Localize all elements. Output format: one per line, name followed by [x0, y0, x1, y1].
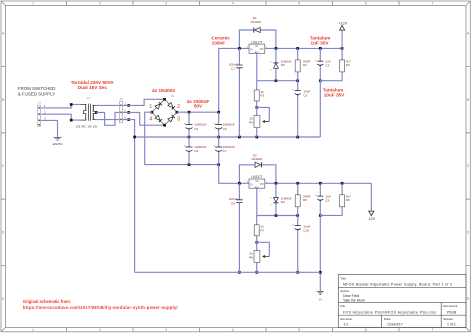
svg-text:1: 1: [32, 2, 34, 6]
capacitor C3 10uF tantalum: [292, 81, 310, 137]
svg-text:T1: T1: [87, 96, 91, 100]
svg-text:5: 5: [298, 328, 300, 332]
svg-text:7: 7: [431, 2, 433, 6]
svg-text:+: +: [184, 144, 186, 148]
wire 0V rail: [135, 136, 321, 138]
svg-text:15V 15V: 15V 15V: [87, 124, 97, 128]
capacitor C9 1uF tantalum: [315, 183, 331, 272]
svg-text:+: +: [315, 193, 317, 197]
wire T1 secondary bottom to J2 pin3: [96, 119, 120, 121]
svg-text:MFOS Bipolar Adjustable Power: MFOS Bipolar Adjustable Power Supply, Bo…: [343, 283, 452, 287]
svg-text:4: 4: [232, 2, 234, 6]
svg-text:& FUSED SUPPLY: & FUSED SUPPLY: [18, 92, 55, 97]
svg-text:R2: R2: [260, 94, 264, 98]
svg-text:R8: R8: [249, 255, 253, 259]
capacitor C2 1uF tantalum: [315, 48, 331, 137]
wire J1 pin3 to earth: [41, 120, 58, 137]
svg-text:LM317T: LM317T: [251, 40, 263, 44]
svg-text:C8: C8: [231, 201, 235, 205]
svg-text:Date: Date: [384, 317, 391, 321]
wire J2 pin1 to bridge AC top: [123, 99, 165, 105]
svg-text:D: D: [2, 231, 5, 235]
svg-text:C9: C9: [325, 198, 329, 202]
svg-text:C: C: [467, 164, 470, 168]
svg-text:R7: R7: [260, 228, 264, 232]
svg-text:R4: R4: [249, 120, 253, 124]
capacitor C5 10000uF: [214, 112, 235, 137]
potentiometer R4 2k: [249, 107, 269, 137]
svg-text:C7: C7: [223, 149, 227, 153]
svg-text:100nF: 100nF: [212, 40, 226, 45]
node -12V power: [367, 183, 375, 221]
svg-text:1: 1: [32, 328, 34, 332]
svg-text:6: 6: [365, 2, 367, 6]
svg-text:VO: VO: [260, 182, 264, 186]
svg-text:Revision: Revision: [340, 317, 352, 321]
svg-text:R1: R1: [303, 63, 307, 67]
resistor R5 240R: [295, 183, 311, 215]
potentiometer R8 2k: [249, 242, 269, 272]
svg-text:LM337T: LM337T: [251, 175, 263, 179]
note: Tantalum 10uF 35V: [323, 87, 345, 97]
svg-text:1N4002: 1N4002: [251, 157, 262, 161]
node +12V power: [338, 22, 347, 49]
svg-text:R6: R6: [346, 198, 350, 202]
svg-text:1.0: 1.0: [344, 323, 349, 327]
connector J2: [119, 97, 126, 123]
svg-text:0V: 0V: [319, 298, 322, 302]
svg-text:VI: VI: [250, 182, 253, 186]
svg-text:6: 6: [365, 328, 367, 332]
svg-text:+12V: +12V: [338, 22, 347, 26]
wire U1 output line: [265, 47, 342, 49]
node junctions upper regulator: [238, 47, 343, 138]
note: Toroidal 230V 50VA Dual 15V Sec: [71, 80, 115, 90]
svg-text:2: 2: [99, 2, 101, 6]
svg-text:4: 4: [149, 117, 152, 123]
note: 4x 3300uF 50V: [187, 99, 210, 108]
svg-text:D: D: [467, 231, 470, 235]
svg-text:Dual 15V Sec: Dual 15V Sec: [78, 85, 108, 90]
svg-text:C1: C1: [231, 67, 235, 71]
svg-text:EARTH: EARTH: [53, 142, 63, 146]
note: source credit text: [23, 299, 179, 310]
svg-text:+: +: [214, 121, 216, 125]
svg-text:FROM SWITCHED: FROM SWITCHED: [18, 86, 56, 91]
connector J1: [38, 101, 46, 127]
svg-text:D3: D3: [281, 63, 285, 67]
svg-text:R5: R5: [303, 198, 307, 202]
svg-text:230 VAC: 230 VAC: [76, 124, 86, 128]
svg-text:Toroidal 230V 50VA: Toroidal 230V 50VA: [71, 80, 115, 85]
diode D4 1N4002: [270, 183, 291, 215]
capacitor C10 10uF tantalum: [292, 216, 310, 273]
capacitor C6 10000uF: [184, 137, 207, 165]
svg-text:Sheets: Sheets: [443, 317, 453, 321]
svg-text:2: 2: [177, 104, 180, 110]
diode D3 1N4002: [270, 48, 291, 80]
capacitor C8 100nF: [229, 183, 243, 272]
note: FROM SWITCHED & FUSED SUPPLY: [18, 86, 56, 97]
svg-text:Take the Moon: Take the Moon: [343, 299, 365, 303]
wire T1 secondary top to J2 pin1: [96, 104, 120, 106]
svg-text:C5: C5: [223, 127, 227, 131]
svg-text:10uF 35V: 10uF 35V: [324, 93, 345, 98]
svg-text:Author: Author: [340, 289, 349, 293]
svg-text:C2: C2: [325, 63, 329, 67]
resistor R7 1k: [254, 216, 264, 251]
node J2 pin end markers: [127, 104, 130, 121]
wire J1 pin1 to T1 primary top: [41, 104, 81, 108]
svg-text:1 of 2: 1 of 2: [447, 323, 456, 327]
ground earth symbol: [54, 137, 62, 140]
svg-text:50V: 50V: [194, 104, 203, 109]
bridge rectifier B1: [149, 95, 180, 126]
svg-text:Title: Title: [340, 276, 346, 280]
svg-text:1uF 35V: 1uF 35V: [311, 40, 330, 45]
svg-text:C10: C10: [303, 228, 309, 232]
svg-text:C3: C3: [303, 93, 307, 97]
svg-text:+: +: [315, 58, 317, 62]
op-amp U2 LM337T regulator: [247, 175, 268, 192]
resistor R1 240R: [295, 48, 311, 80]
node junctions lower regulator: [238, 182, 343, 274]
svg-text:7: 7: [431, 328, 433, 332]
svg-text:3: 3: [165, 328, 167, 332]
node junctions on raw rails: [133, 111, 220, 166]
svg-text:File: File: [340, 304, 345, 308]
wire J2 pin3 to 0V rail and lower gnd rail: [123, 120, 135, 273]
ground 0V at lower gnd rail: [317, 271, 324, 302]
capacitor C1 100nF ceramic: [229, 48, 243, 137]
svg-text:Dave Field: Dave Field: [343, 294, 359, 298]
svg-text:+: +: [184, 121, 186, 125]
diode D2 1N4002 bypass over U2: [239, 153, 276, 183]
svg-text:Document: Document: [443, 304, 457, 308]
svg-text:VO: VO: [260, 47, 264, 51]
svg-text:VI: VI: [250, 47, 253, 51]
wire U2 ADJ to adj line: [257, 188, 298, 215]
transformer T1: [76, 96, 98, 128]
svg-text:1N4002: 1N4002: [250, 20, 261, 24]
wire T1 center tap to J2 pin2: [96, 112, 119, 125]
svg-text:2: 2: [99, 328, 101, 332]
wire lower gnd rail: [135, 271, 321, 273]
svg-text:R3: R3: [346, 63, 350, 67]
title block: [338, 275, 466, 328]
svg-text:+: +: [292, 88, 294, 92]
svg-text:FOS Adjustable PSU\MFOS Adjust: FOS Adjustable PSU\MFOS Adjustable PSU.d…: [343, 310, 436, 314]
capacitor C7 10000uF: [214, 137, 235, 165]
svg-text:1: 1: [149, 104, 152, 110]
wire U1 ADJ to adj line: [257, 53, 298, 80]
svg-text:+: +: [214, 144, 216, 148]
svg-text:12Jul2017: 12Jul2017: [387, 323, 403, 327]
diode D1 1N4002 bypass over U1: [239, 16, 276, 48]
svg-text:3: 3: [177, 117, 180, 123]
wire bridge plus to +V rail and riser: [177, 48, 249, 112]
wire U2 output line: [265, 182, 372, 184]
op-amp U1 LM317T regulator: [247, 40, 268, 57]
note: Tantalum 1uF 35V: [310, 36, 331, 46]
node elbows on J1 wires: [70, 103, 73, 121]
wire J2 pin2 to bridge AC bottom: [123, 112, 165, 125]
resistor R3 4k7: [320, 48, 351, 80]
svg-text:+: +: [292, 223, 294, 227]
node T1 center tap: [95, 111, 98, 114]
svg-text:PSUB: PSUB: [447, 310, 457, 314]
svg-text:D4: D4: [281, 200, 285, 204]
svg-text:3: 3: [165, 2, 167, 6]
resistor R2 1k: [254, 81, 264, 116]
wire -V riser to U2 input: [219, 165, 249, 184]
svg-text:4x 1N4002: 4x 1N4002: [152, 88, 175, 93]
note: Ceramic 100nF: [211, 36, 230, 46]
wire J1 pin2 to T1 primary bottom: [41, 114, 81, 120]
svg-text:-12V: -12V: [367, 217, 375, 221]
wire bridge minus to -V rail: [145, 112, 219, 164]
svg-text:https://moroccodave.com/2017/0: https://moroccodave.com/2017/08/08/diy-m…: [23, 305, 179, 310]
capacitor C4 10000uF: [184, 112, 207, 137]
svg-text:J1: J1: [38, 101, 41, 105]
svg-text:C6: C6: [194, 149, 198, 153]
svg-text:J2: J2: [119, 97, 122, 101]
svg-text:5: 5: [298, 2, 300, 6]
svg-text:C: C: [2, 164, 5, 168]
svg-text:Original schematic from:: Original schematic from:: [23, 299, 71, 304]
svg-text:C4: C4: [194, 127, 198, 131]
resistor R6 4k7: [320, 183, 351, 215]
svg-text:4: 4: [232, 328, 234, 332]
